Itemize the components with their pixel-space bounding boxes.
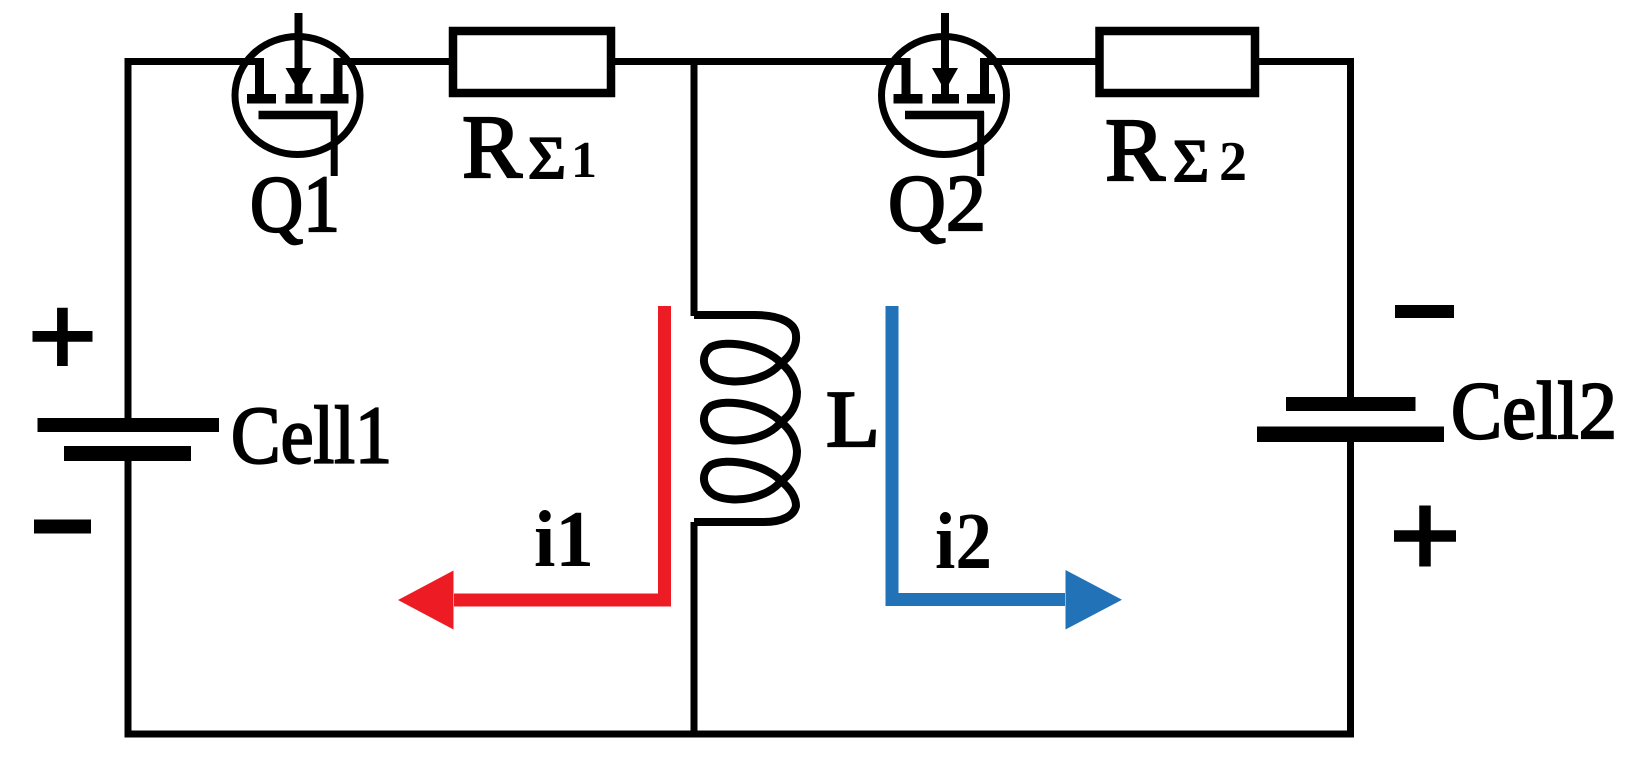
svg-text:Σ: Σ (528, 125, 566, 191)
svg-text:i2: i2 (935, 498, 992, 586)
svg-text:Cell1: Cell1 (231, 390, 392, 481)
svg-text:Q2: Q2 (888, 158, 986, 248)
svg-text:R: R (1105, 101, 1165, 200)
svg-text:Q1: Q1 (250, 159, 340, 249)
svg-text:L: L (826, 376, 880, 464)
svg-text:1: 1 (571, 132, 597, 189)
svg-text:Σ: Σ (1173, 128, 1209, 194)
svg-text:R: R (462, 98, 522, 197)
svg-text:2: 2 (1219, 131, 1247, 193)
svg-text:i1: i1 (534, 496, 594, 584)
svg-text:Cell2: Cell2 (1451, 365, 1617, 456)
